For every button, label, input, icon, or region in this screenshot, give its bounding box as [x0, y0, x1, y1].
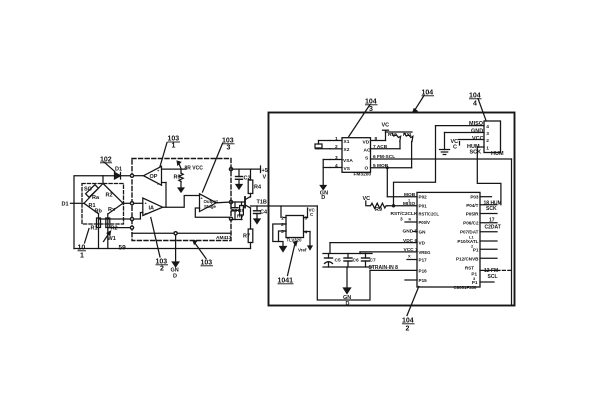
svg-text:4: 4	[473, 101, 477, 108]
svg-text:+5: +5	[262, 168, 268, 174]
svg-text:R5: R5	[238, 208, 244, 214]
svg-text:C3: C3	[231, 208, 237, 214]
svg-text:P04/T: P04/T	[466, 203, 478, 208]
svg-text:7 ACB: 7 ACB	[373, 144, 388, 150]
svg-text:SCK: SCK	[486, 206, 497, 212]
svg-text:1: 1	[172, 143, 176, 150]
svg-text:P00/V: P00/V	[419, 220, 431, 225]
svg-text:P02: P02	[419, 195, 428, 200]
svg-text:P16: P16	[419, 268, 428, 273]
svg-text:C6: C6	[353, 258, 359, 264]
svg-text:D: D	[173, 274, 177, 280]
svg-text:3: 3	[486, 131, 489, 137]
svg-text:RST/C2CL: RST/C2CL	[419, 212, 440, 217]
svg-text:R4: R4	[254, 185, 262, 191]
svg-text:X2: X2	[344, 147, 350, 153]
svg-text:3: 3	[400, 217, 403, 223]
svg-text:X: X	[408, 254, 411, 259]
svg-text:IA: IA	[149, 206, 155, 212]
svg-text:W1: W1	[108, 236, 116, 242]
svg-text:3: 3	[369, 106, 373, 113]
svg-text:5: 5	[305, 216, 308, 222]
svg-text:K: K	[409, 217, 412, 222]
svg-text:VD: VD	[363, 140, 370, 146]
svg-text:2: 2	[406, 326, 410, 333]
svg-text:4: 4	[486, 124, 489, 130]
svg-text:1: 1	[80, 253, 84, 260]
svg-text:R7: R7	[243, 234, 250, 240]
svg-text:VCC: VCC	[472, 136, 484, 142]
svg-text:Rx: Rx	[108, 207, 116, 213]
svg-text:59: 59	[119, 245, 127, 252]
svg-text:VSA: VSA	[343, 158, 353, 164]
svg-text:2: 2	[486, 138, 489, 144]
svg-text:C5: C5	[335, 258, 341, 264]
svg-text:TLV320: TLV320	[287, 238, 303, 243]
svg-text:GND: GND	[471, 128, 483, 134]
svg-text:L1: L1	[469, 235, 474, 240]
svg-text:R9: R9	[375, 207, 382, 213]
svg-text:GND 5: GND 5	[403, 228, 418, 234]
svg-text:Stage: Stage	[204, 204, 217, 209]
svg-text:MISO: MISO	[469, 121, 484, 127]
svg-text:P01: P01	[419, 204, 428, 209]
svg-text:VDC 6: VDC 6	[403, 238, 417, 244]
svg-text:C8051F330: C8051F330	[454, 285, 478, 290]
svg-text:C7: C7	[370, 258, 376, 264]
svg-text:VC: VC	[382, 123, 390, 129]
svg-text:RST: RST	[465, 266, 474, 271]
svg-text:D: D	[346, 301, 350, 307]
svg-text:3: 3	[227, 145, 231, 152]
svg-text:HUM: HUM	[491, 151, 504, 157]
svg-text:R6: R6	[237, 214, 243, 220]
svg-text:VD: VD	[419, 241, 426, 246]
svg-text:D1: D1	[115, 167, 122, 173]
svg-text:P10/XATL: P10/XATL	[457, 239, 478, 244]
svg-text:STRAIN-IN 8: STRAIN-IN 8	[369, 265, 399, 271]
svg-text:R3: R3	[174, 175, 181, 181]
svg-text:P1: P1	[473, 247, 479, 252]
svg-text:D1: D1	[62, 202, 69, 208]
svg-text:4: 4	[335, 163, 338, 169]
svg-text:5 MOB: 5 MOB	[373, 163, 389, 169]
svg-text:2: 2	[160, 266, 164, 273]
svg-text:C4: C4	[260, 210, 268, 216]
svg-text:C2DAT: C2DAT	[485, 224, 501, 230]
svg-text:D: D	[321, 195, 325, 201]
svg-text:P12/CNVB: P12/CNVB	[456, 256, 479, 261]
svg-text:C2: C2	[244, 176, 251, 182]
svg-text:RST/C2CLK: RST/C2CLK	[391, 211, 418, 217]
svg-text:OP: OP	[150, 174, 158, 180]
svg-text:P15: P15	[419, 278, 428, 283]
svg-text:Rb: Rb	[95, 209, 103, 215]
svg-text:C: C	[453, 145, 457, 151]
svg-text:O: O	[365, 166, 369, 172]
svg-text:R1: R1	[91, 226, 98, 232]
svg-text:X1: X1	[344, 139, 350, 145]
svg-text:2: 2	[335, 144, 338, 150]
svg-text:SCK: SCK	[470, 149, 482, 155]
svg-text:VREG: VREG	[419, 250, 431, 255]
svg-text:T1B: T1B	[257, 200, 267, 206]
svg-text:AO: AO	[364, 148, 371, 154]
svg-text:6 FM-SCL: 6 FM-SCL	[373, 154, 395, 160]
svg-text:17: 17	[489, 218, 495, 224]
svg-text:3: 3	[281, 229, 284, 235]
svg-text:VCC 7: VCC 7	[404, 247, 418, 253]
svg-text:VC: VC	[363, 196, 371, 202]
svg-text:1: 1	[335, 136, 338, 142]
svg-text:VS: VS	[344, 166, 351, 172]
svg-text:R2: R2	[106, 193, 113, 199]
svg-text:P17: P17	[419, 258, 428, 263]
svg-text:R11: R11	[403, 132, 412, 138]
svg-text:2: 2	[281, 222, 284, 228]
svg-text:V: V	[263, 175, 267, 181]
svg-text:SG: SG	[84, 187, 92, 193]
svg-text:R2: R2	[111, 226, 118, 232]
svg-text:P06/C2: P06/C2	[463, 221, 479, 226]
svg-text:AM417: AM417	[216, 235, 232, 241]
svg-text:1: 1	[281, 216, 284, 222]
svg-text:4: 4	[305, 230, 308, 236]
svg-text:P03: P03	[470, 195, 479, 200]
svg-text:Ra: Ra	[92, 195, 100, 201]
svg-text:8: 8	[375, 136, 378, 142]
svg-text:FM3200: FM3200	[354, 171, 372, 177]
svg-text:SCL: SCL	[488, 274, 498, 280]
svg-text:3: 3	[335, 155, 338, 161]
svg-text:1: 1	[486, 146, 489, 152]
svg-text:GN: GN	[419, 230, 427, 235]
svg-text:P05/R: P05/R	[466, 212, 479, 217]
svg-text:Vref: Vref	[298, 248, 307, 253]
svg-text:R10: R10	[388, 132, 397, 138]
svg-text:8R VCC: 8R VCC	[185, 166, 204, 172]
